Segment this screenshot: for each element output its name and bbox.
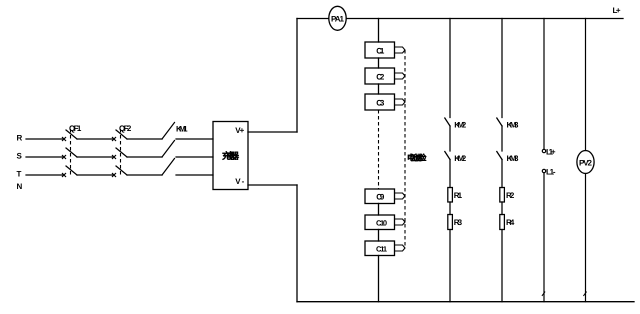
svg-text:R3: R3 <box>454 218 463 227</box>
svg-text:KM3: KM3 <box>507 120 520 129</box>
svg-text:T: T <box>17 170 22 179</box>
svg-text:R2: R2 <box>506 191 515 200</box>
svg-text:L1-: L1- <box>546 168 556 177</box>
svg-text:C3: C3 <box>376 99 385 108</box>
svg-text:KM2: KM2 <box>454 120 467 129</box>
svg-text:V-: V- <box>235 177 244 186</box>
svg-text:KM1: KM1 <box>176 125 188 134</box>
svg-text:C9: C9 <box>376 193 385 202</box>
svg-text:V+: V+ <box>235 126 244 135</box>
svg-text:PV2: PV2 <box>579 159 593 168</box>
svg-text:R1: R1 <box>454 191 463 200</box>
svg-text:S: S <box>17 152 23 161</box>
svg-text:KM2: KM2 <box>454 154 467 163</box>
svg-text:L1+: L1+ <box>546 148 556 157</box>
svg-text:PA1: PA1 <box>331 15 345 24</box>
svg-text:C2: C2 <box>376 73 385 82</box>
svg-text:电池巡检: 电池巡检 <box>407 154 427 163</box>
svg-text:C1: C1 <box>376 47 385 56</box>
svg-text:L+: L+ <box>613 6 621 15</box>
svg-text:KM3: KM3 <box>507 154 520 163</box>
svg-text:QF2: QF2 <box>119 124 132 133</box>
svg-text:C10: C10 <box>376 219 387 228</box>
svg-text:R: R <box>17 134 23 143</box>
svg-text:QF1: QF1 <box>69 124 82 133</box>
svg-text:R4: R4 <box>506 218 515 227</box>
svg-text:N: N <box>17 182 23 191</box>
svg-text:充电器: 充电器 <box>222 151 240 161</box>
svg-text:C11: C11 <box>376 245 387 254</box>
